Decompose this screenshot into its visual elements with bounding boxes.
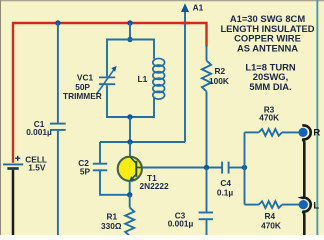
wire: emitter down [129,181,131,195]
cell BT1 plus sign [15,156,20,161]
resistor R2 [206,46,208,61]
wire: jack sleeve black line [302,125,310,235]
node: junction dot output [242,165,247,170]
transistor T1 base lead [137,167,142,169]
svg-text:R2: R2 [215,66,226,76]
transistor T1 collector stroke [130,157,136,163]
node: junction dot emitter [127,192,132,197]
wire: output vertical R3/R4 [244,132,246,204]
wire: C4 to output node [229,167,244,169]
capacitor C3 plates [199,212,213,214]
resistor R1 [129,195,131,208]
svg-text:100K: 100K [209,76,229,86]
svg-text:L1: L1 [138,74,148,84]
wire: base node to C3 [206,168,208,212]
page border left [0,0,1,235]
trimmer VC1 arrow [96,69,114,94]
capacitor C1 plates [50,123,66,125]
resistor R4 [245,204,259,206]
svg-text:R: R [313,128,320,139]
wire: C3 down (cropped) [206,220,208,235]
transistor T1 emitter stroke with arrow [131,174,137,180]
svg-text:5P: 5P [80,166,91,176]
wire: tank bottom to collector node [129,117,131,142]
node: junction dot tank/rail [127,20,132,25]
antenna A1 lead [184,9,186,142]
svg-text:0.001µ: 0.001µ [168,219,194,229]
trimmer capacitor VC1 plates [99,76,115,78]
terminal R dot [298,128,307,137]
node: junction dot C1/rail [55,20,60,25]
svg-text:C4: C4 [220,178,231,188]
wire: cell minus down (black) [12,170,15,235]
wire: rail to C1 [57,23,59,123]
node: junction dot tank top [127,37,132,42]
svg-text:330Ω: 330Ω [101,221,122,231]
antenna A1 arrowhead [181,3,189,12]
svg-text:470K: 470K [261,220,281,230]
svg-text:1.5V: 1.5V [28,162,46,172]
node: junction dot base/R2/C4 [204,165,209,170]
capacitor C2 plates [93,163,108,165]
node: junction dot tank bottom [127,114,132,119]
svg-text:5MM DIA.: 5MM DIA. [249,81,291,92]
wire: base node horizontal [142,167,222,169]
cell BT1 short plate [7,167,18,170]
wire: node to C2 [99,142,101,163]
svg-text:0.1µ: 0.1µ [217,188,234,198]
inductor L1 coil loops [153,58,165,99]
node: junction dot collector [127,139,132,144]
wire: C1 to ground rail (cropped) [57,131,59,235]
wire: red rail over antenna lead [181,22,189,24]
page border top [0,0,324,1]
capacitor C4 plates [221,162,223,174]
transistor T1 base bar [135,161,137,177]
cell BT1 long plate [3,163,23,165]
wire: collector node to transistor [129,142,131,158]
wire: rail to tank top [129,23,131,40]
svg-text:AS ANTENNA: AS ANTENNA [237,42,298,53]
svg-text:2N2222: 2N2222 [140,181,169,191]
svg-text:L: L [313,200,319,211]
svg-text:470K: 470K [259,113,279,123]
resistor R3 [245,131,259,133]
wire: collector node horizontal [100,141,185,143]
transistor T1 body [118,157,142,181]
svg-text:TRIMMER: TRIMMER [63,91,102,101]
terminal L dot [299,200,308,209]
wire: tank loop outline [107,40,154,118]
page rule right (teal) [316,0,318,235]
wire: C2 to emitter node [100,171,130,195]
wire: +V red rail from cell to R2 [13,23,207,163]
svg-text:A1: A1 [193,3,204,13]
svg-text:0.001µ: 0.001µ [26,127,52,137]
